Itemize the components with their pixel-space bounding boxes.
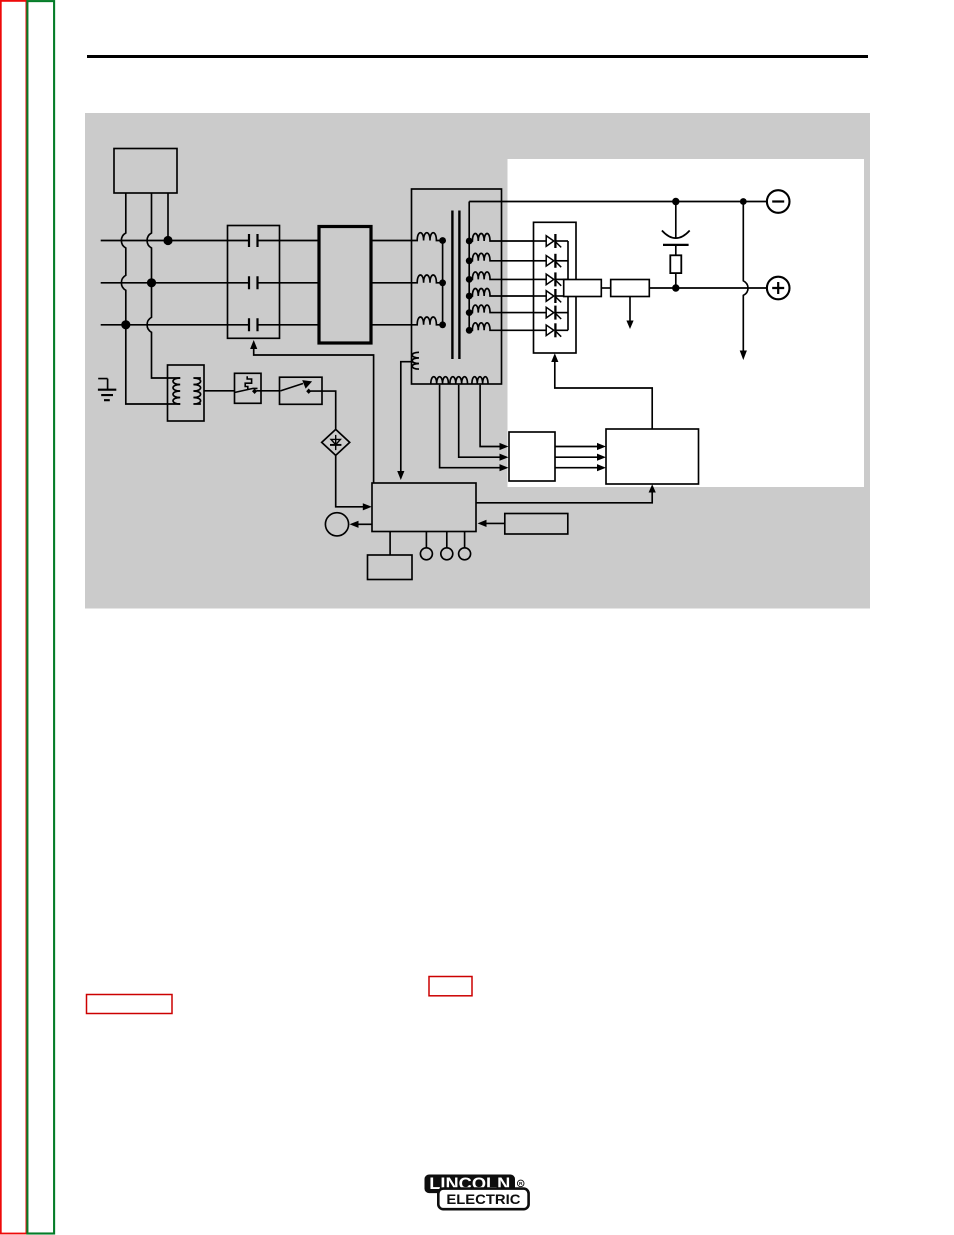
wire control to capacitor bank (arrow up): [254, 348, 374, 483]
aux winding (left): [412, 352, 419, 369]
secondary winding S6: [469, 323, 533, 331]
red sidebar link column: [1, 1, 27, 1234]
resistor R1 (bleeder): [670, 255, 681, 273]
wire aux lead to interface PCB: [440, 385, 502, 468]
input rectifier box: [319, 227, 371, 344]
SCR rectifier assembly box: [534, 222, 577, 353]
secondary winding S5: [469, 305, 533, 313]
node secondary bus junction: [466, 327, 473, 334]
ground: [98, 379, 116, 401]
positive output rail: [649, 287, 767, 289]
wire interface PCB to firing PCB: [555, 446, 600, 448]
node phase L1 tap: [163, 236, 172, 245]
SCR D3: [534, 272, 569, 286]
wire resistor to positive rail: [675, 273, 677, 288]
wire rectifier to transformer B: [371, 282, 412, 284]
figure link box (middle): [429, 977, 472, 996]
capacitor C2: [249, 276, 258, 289]
capacitor C3: [249, 318, 258, 331]
wire switch to protection diode: [311, 391, 336, 429]
wire phase L2: [101, 282, 319, 284]
capacitor C7 (polarized): [662, 202, 690, 256]
thermostat contact: [235, 376, 280, 394]
secondary common bus: [468, 202, 470, 331]
secondary winding S1: [469, 234, 533, 242]
wire aux lead to interface PCB: [459, 385, 502, 457]
wire interface PCB to firing PCB: [555, 467, 600, 469]
secondary winding S4: [469, 289, 533, 297]
indicator lamp: [459, 532, 471, 560]
svg-text:ELECTRIC: ELECTRIC: [446, 1191, 520, 1207]
wire drop line to phase L1: [167, 193, 169, 241]
node negative rail / capacitor: [672, 198, 679, 205]
node phase L3 tap: [121, 320, 130, 329]
wire rectifier to transformer A: [371, 240, 412, 242]
wire diode to control PCB (arrow right): [336, 455, 366, 506]
white output region: [508, 159, 865, 487]
primary winding P2: [412, 275, 443, 283]
control PCB box: [372, 483, 476, 532]
SCR D1: [534, 234, 569, 248]
node secondary bus junction: [466, 257, 473, 264]
capacitor bank box: [228, 226, 280, 339]
node secondary bus junction: [466, 309, 473, 316]
wire aux winding to control PCB (arrow down): [401, 362, 413, 472]
power switch blade: [280, 380, 312, 394]
input lead box: [114, 149, 177, 194]
green sidebar link column: [27, 1, 54, 1233]
aux winding (bottom) W1: [431, 377, 449, 384]
capacitor C1: [249, 234, 258, 247]
wire remote to control PCB (arrow left): [484, 522, 505, 524]
wire interface PCB to firing PCB: [555, 456, 600, 458]
aux winding (bottom) W3: [472, 377, 488, 384]
secondary winding S3: [469, 272, 533, 280]
positive terminal: [767, 277, 790, 300]
shunt: [611, 280, 650, 297]
node primary bus junction: [439, 237, 446, 244]
primary winding P3: [412, 317, 443, 325]
wire aux lead to interface PCB: [480, 385, 501, 447]
node primary bus junction: [439, 279, 446, 286]
node positive rail / resistor: [672, 284, 679, 291]
wire electrode branch (hops positive rail, arrow down): [743, 202, 748, 352]
header rule: [87, 55, 868, 58]
wire phase L3: [101, 324, 319, 326]
transformer core: [452, 211, 459, 360]
node secondary bus junction: [466, 276, 473, 283]
protection diode (diamond): [322, 429, 350, 455]
node secondary bus junction: [466, 238, 473, 245]
Lincoln Electric logo: [425, 1175, 529, 1210]
SCR D2: [534, 254, 569, 268]
cathode bus: [567, 241, 569, 330]
interface PCB box: [509, 432, 555, 481]
control transformer primary coil: [173, 378, 180, 404]
wire control PCB to mode switch: [389, 532, 391, 556]
svg-text:R: R: [519, 1181, 523, 1187]
remote control box: [505, 514, 568, 535]
primary star bus: [442, 241, 444, 325]
thermostat box: [235, 373, 262, 403]
wire control PCB to firing PCB (arrow up): [476, 490, 652, 503]
indicator lamp: [441, 532, 453, 560]
SCR D4: [534, 289, 569, 303]
secondary winding S2: [469, 253, 533, 261]
primary winding P1: [412, 233, 443, 241]
wire firing PCB to SCR gates (arrow up): [555, 360, 652, 429]
node phase L2 tap: [147, 278, 156, 287]
control transformer T2 box: [168, 365, 205, 421]
negative terminal: [767, 190, 790, 213]
output control dial: [325, 513, 348, 536]
figure link box (left): [87, 995, 173, 1014]
node negative rail / electrode branch: [740, 198, 747, 205]
negative output rail: [469, 201, 767, 203]
wire phase L1: [101, 240, 319, 242]
aux winding (bottom) W2: [450, 377, 468, 384]
indicator lamp: [420, 532, 432, 560]
power switch box: [280, 377, 323, 404]
wire rectifier to transformer C: [371, 324, 412, 326]
node secondary bus junction: [466, 293, 473, 300]
SCR D6: [534, 323, 569, 337]
wire bus bar to shunt: [601, 287, 610, 289]
shunt sense arrow: [629, 297, 631, 322]
main transformer T1 box: [412, 189, 502, 384]
mode switch box below control PCB: [368, 555, 413, 580]
control transformer secondary coil: [193, 378, 201, 404]
output bus bar: [564, 280, 602, 297]
wire control PCB to dial (arrow left): [356, 523, 372, 525]
firing PCB box: [606, 429, 699, 484]
node primary bus junction: [439, 321, 446, 328]
schematic gray background panel: [85, 113, 870, 609]
SCR D5: [534, 306, 569, 320]
wire drop line to phase L2 (hops L1, feeds aux transformer): [147, 193, 180, 378]
wire drop line to phase L3 (hops L1,L2): [121, 193, 180, 404]
wire transformer secondary to thermostat: [204, 390, 235, 392]
